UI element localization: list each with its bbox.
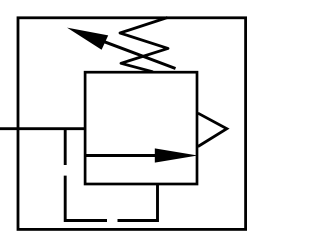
spring (zigzag) [120,18,168,72]
enclosure box [18,18,246,230]
valve body square [85,72,197,184]
inlet port line [0,127,85,130]
pilot line dash 1 (vertical) [64,129,67,165]
adjustment arrowhead (filled) [67,28,108,50]
pilot line dash 2 (vertical into corner) [65,176,107,221]
flow path arrow shaft [85,154,156,157]
pilot line dash 3 (horizontal into riser corner) [118,184,158,221]
relief vent chevron [198,113,227,146]
adjustment arrow shaft [105,42,176,69]
flow path arrowhead (filled) [155,148,198,162]
